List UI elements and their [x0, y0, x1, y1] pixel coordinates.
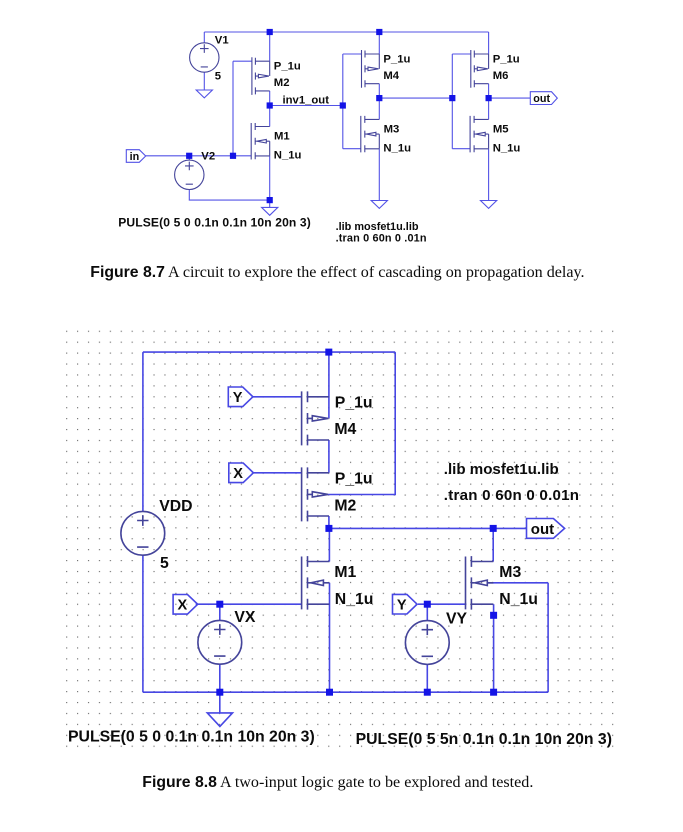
svg-text:N_1u: N_1u: [274, 149, 302, 161]
wire M4 drain to M2 source: [328, 440, 330, 473]
transistor M3 nmos4: [466, 556, 494, 610]
svg-text:.lib mosfet1u.lib: .lib mosfet1u.lib: [444, 461, 559, 478]
svg-text:VY: VY: [446, 611, 468, 628]
wire M1 source to ground node: [269, 156, 271, 207]
wire out node to M1 drain: [328, 528, 330, 561]
wire out node to M5 drain: [488, 98, 490, 119]
junction inv1_out: [267, 102, 273, 108]
wire M3 source to ground rail: [493, 604, 495, 692]
svg-text:M2: M2: [274, 77, 290, 89]
svg-text:5: 5: [215, 71, 221, 83]
svg-text:.tran 0 60n 0 0.01n: .tran 0 60n 0 0.01n: [444, 487, 579, 504]
svg-text:out: out: [533, 93, 550, 105]
port out fig8.8: [527, 519, 565, 539]
wire M3 bulk loop to ground rail: [488, 583, 548, 692]
wire inverter2 gate link: [343, 54, 362, 149]
svg-text:in: in: [130, 151, 140, 163]
wire M3 source to ground: [378, 149, 380, 201]
wire VY to ground rail: [426, 664, 428, 692]
transistor M3 nmos: [361, 116, 380, 152]
svg-text:P_1u: P_1u: [493, 53, 520, 65]
transistor M4 pmos4: [302, 391, 329, 445]
junction inv2 gate: [340, 102, 346, 108]
wire V1 to rail: [203, 32, 205, 43]
junction rail-M2: [267, 29, 273, 35]
wire out node to out port: [489, 97, 531, 99]
svg-text:M1: M1: [274, 130, 290, 142]
wire VDD to bottom rail: [142, 555, 144, 692]
junction rail-VY: [424, 689, 431, 696]
wire inv1_out to M1 drain: [269, 106, 271, 127]
svg-text:.tran 0 60n 0 .01n: .tran 0 60n 0 .01n: [336, 232, 427, 244]
svg-text:N_1u: N_1u: [383, 142, 411, 154]
svg-text:out: out: [531, 521, 554, 538]
junction X-VX: [216, 601, 223, 608]
wire rail corner to M6 source: [488, 32, 490, 54]
wire M5 source to ground: [488, 149, 490, 201]
junction inv2 out: [376, 95, 382, 101]
junction M3 source pin: [490, 612, 497, 619]
port out (fig 8.7): [530, 92, 557, 105]
ground below inverter2: [371, 201, 387, 209]
wire rail to M2 source: [269, 32, 271, 61]
svg-text:Y: Y: [397, 597, 407, 613]
transistor M2 pmos4: [302, 467, 329, 521]
wire VX to ground rail: [219, 664, 221, 692]
svg-text:5: 5: [160, 555, 169, 572]
ground below VX: [207, 713, 232, 727]
port Y top: [228, 387, 253, 407]
junction ground node: [267, 197, 273, 203]
figure 8.7 schematic: [146, 32, 531, 207]
svg-text:V1: V1: [215, 34, 229, 46]
transistor M4 pmos: [362, 50, 380, 88]
ground below inverter1: [262, 207, 278, 215]
voltage source V2: [175, 160, 204, 189]
svg-text:X: X: [178, 598, 188, 614]
wire M2 bulk to VDD loop: [328, 352, 396, 494]
svg-text:VX: VX: [234, 609, 256, 626]
wire mid node to M3 drain: [378, 98, 380, 119]
ground below inverter3: [481, 201, 497, 209]
junction rail-VX: [216, 689, 223, 696]
wire ground rail bottom: [143, 691, 548, 693]
svg-text:.lib mosfet1u.lib: .lib mosfet1u.lib: [336, 221, 419, 233]
wire X row to M1 gate: [196, 603, 302, 605]
svg-text:N_1u: N_1u: [335, 591, 374, 608]
wire X port to M2 gate: [253, 472, 301, 474]
svg-text:N_1u: N_1u: [499, 591, 538, 608]
wire left rail: [142, 352, 144, 511]
junction Y-VY: [424, 601, 431, 608]
port Y bottom: [393, 594, 418, 614]
junction rail-M3: [490, 689, 497, 696]
wire out node to M3 drain: [492, 528, 494, 561]
junction rail-M1: [326, 689, 333, 696]
transistor M2 pmos: [252, 57, 270, 95]
wire rail to M4 source and bulk: [328, 352, 330, 418]
wire V1 to ground: [203, 72, 205, 90]
transistor M5 nmos: [470, 116, 489, 152]
svg-text:M3: M3: [499, 564, 521, 581]
voltage source VX: [198, 620, 242, 664]
junction inv3 gate: [449, 95, 455, 101]
svg-text:PULSE(0 5 0 0.1n 0.1n 10n 20n: PULSE(0 5 0 0.1n 0.1n 10n 20n 3): [118, 216, 311, 230]
svg-text:M6: M6: [493, 70, 509, 82]
port in: [126, 150, 145, 163]
ground below V1: [196, 90, 212, 98]
wire VDD rail top fig8.8: [143, 351, 395, 353]
svg-text:M3: M3: [384, 123, 400, 135]
voltage source VY: [405, 621, 449, 665]
svg-text:P_1u: P_1u: [274, 61, 301, 73]
port X bottom: [173, 595, 198, 615]
wire VDD rail top: [204, 31, 488, 33]
svg-text:P_1u: P_1u: [335, 394, 373, 411]
voltage source V1: [190, 43, 219, 72]
svg-text:VDD: VDD: [159, 498, 192, 515]
svg-text:V2: V2: [201, 150, 215, 162]
junction inverter1 gate: [230, 153, 236, 159]
junction out-M2: [325, 525, 332, 532]
figure 8.8 schematic: [63, 328, 616, 751]
wire VX top stub: [219, 604, 221, 620]
svg-text:inv1_out: inv1_out: [283, 95, 330, 107]
junction V2 top: [186, 153, 192, 159]
svg-text:M5: M5: [493, 123, 509, 135]
transistor M6 pmos: [471, 50, 489, 88]
wire rail to M4 source: [378, 32, 380, 54]
wire node inv1_out: [270, 105, 343, 107]
wire M2 drain to out node: [328, 516, 330, 528]
wire Y port to M4 gate: [253, 396, 302, 398]
svg-text:M4: M4: [383, 70, 399, 82]
wire M6 drain to out node: [488, 84, 490, 98]
svg-text:Figure 8.7 A circuit to explor: Figure 8.7 A circuit to explore the effe…: [90, 264, 584, 281]
svg-text:Figure 8.8 A two-input logic g: Figure 8.8 A two-input logic gate to be …: [142, 774, 533, 791]
transistor M1 nmos4: [302, 556, 330, 610]
svg-text:N_1u: N_1u: [493, 142, 521, 154]
svg-text:M1: M1: [334, 564, 356, 581]
wire M2 drain to inv1_out: [269, 91, 271, 106]
junction inv3 out: [486, 95, 492, 101]
voltage source VDD: [121, 511, 165, 555]
wire VY top stub: [426, 604, 428, 621]
svg-text:PULSE(0 5 5n 0.1n 0.1n 10n 20n: PULSE(0 5 5n 0.1n 0.1n 10n 20n 3): [356, 731, 612, 748]
svg-text:PULSE(0 5 0 0.1n 0.1n 10n 20n: PULSE(0 5 0 0.1n 0.1n 10n 20n 3): [68, 729, 315, 746]
wire Y row to M3 gate: [418, 603, 467, 605]
port X top: [229, 463, 254, 483]
transistor M1 nmos: [251, 123, 270, 160]
wire out row: [329, 527, 527, 529]
svg-text:Y: Y: [233, 390, 243, 406]
wire inverter3 gate link: [452, 54, 471, 149]
wire M4 drain to mid node: [378, 84, 380, 98]
wire ground stub below rail: [219, 692, 221, 713]
svg-text:X: X: [233, 466, 243, 482]
wire M1 bulk and source to ground rail: [329, 583, 331, 692]
wire inverter2 output node: [379, 97, 452, 99]
svg-text:M4: M4: [334, 421, 356, 438]
wire V2 bottom return: [189, 190, 269, 201]
wire V2 top stub: [188, 156, 190, 160]
junction rail-M4: [376, 29, 382, 35]
junction rail-M4: [325, 349, 332, 356]
svg-text:M2: M2: [334, 497, 356, 514]
svg-text:P_1u: P_1u: [383, 53, 410, 65]
wire inverter1 gate link: [233, 61, 252, 156]
svg-text:P_1u: P_1u: [335, 471, 373, 488]
wire in port to gates: [146, 155, 233, 157]
junction out-M3: [490, 525, 497, 532]
